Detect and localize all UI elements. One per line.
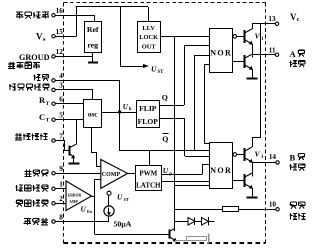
current source I1 50uA circle — [104, 206, 114, 216]
pin 6 terminal circle — [52, 102, 55, 105]
wire LLV stub into NOR2 input4 — [175, 185, 210, 187]
wire pin16 to Ref reg — [55, 16, 94, 22]
wire Uk down branch — [119, 112, 121, 151]
svg-text:NOR: NOR — [210, 166, 232, 175]
svg-text:Eo: Eo — [87, 209, 93, 214]
wire pin7 dead-time control — [54, 141, 68, 151]
wire error amp output stub — [92, 196, 95, 198]
wire current source to pin8 node — [108, 216, 110, 221]
label 补偿端 (compensation) — [25, 169, 27, 176]
ground bar under V2 — [68, 163, 79, 165]
svg-text:AMP: AMP — [69, 200, 78, 204]
ground bar output stage B — [247, 197, 258, 199]
wire Uk blanking line — [120, 150, 210, 152]
wire V1d collector to B node — [252, 163, 254, 177]
svg-text:FLOP: FLOP — [138, 117, 159, 126]
block OSC oscillator U3 — [84, 100, 102, 128]
wire diode stub end — [209, 221, 215, 223]
transistor V1c (B output upper) — [244, 148, 246, 161]
pin 14 terminal circle — [276, 161, 279, 164]
svg-text:P: P — [169, 171, 172, 176]
wire LLV rail riser down — [174, 36, 176, 231]
wire Qbar into NOR2 input1 — [185, 156, 210, 158]
wire V1a emitter to A output node — [252, 44, 254, 55]
IC boundary dashed border bottom — [64, 242, 266, 244]
wire NOR2 lower output to V1d base — [233, 180, 244, 182]
terminal circle above current source — [107, 191, 111, 195]
pin 1 terminal circle — [52, 187, 55, 190]
svg-text:FLIP: FLIP — [139, 104, 157, 113]
svg-text:k: k — [129, 107, 132, 112]
wire terminal to current source — [108, 195, 110, 206]
wire resistor to pin10 — [239, 209, 276, 211]
wire UP output upper — [161, 174, 202, 176]
wire UP riser — [202, 164, 204, 174]
svg-text:50µA: 50µA — [114, 219, 132, 228]
wire Qbar riser to NOR2 — [184, 119, 186, 156]
wire diode branch — [175, 221, 188, 223]
wire OSC output Uk — [102, 112, 136, 114]
svg-text:c: c — [297, 16, 300, 23]
label 基准电源 (reference supply) — [16, 11, 23, 13]
IC boundary dashed border left — [63, 3, 65, 245]
block PWM LATCH U7 — [136, 166, 162, 191]
wire Uk stub to PWM latch — [149, 151, 151, 165]
svg-text:2: 2 — [59, 195, 63, 203]
wire base from error amp node — [94, 234, 169, 236]
wire pin3 oscillator output — [55, 90, 92, 100]
current source arrow — [108, 208, 110, 214]
label 控制 (control) — [290, 213, 292, 219]
pin 3 terminal circle — [52, 88, 55, 91]
pin 16 terminal circle — [52, 14, 55, 17]
svg-text:Q: Q — [162, 93, 168, 102]
wire V2 emitter to ground — [73, 157, 75, 163]
wire pin4 external frequency input — [55, 81, 119, 112]
svg-text:3: 3 — [59, 82, 63, 90]
label 关断 (shutdown) — [290, 201, 296, 203]
label 同向输入 (non-inverting input) — [16, 199, 22, 201]
wire PWM latch lower output to NOR2 input3 — [161, 181, 209, 183]
NOR2 output bubble — [233, 153, 237, 157]
svg-text:14: 14 — [269, 153, 277, 161]
wire error amp output to comparator — [94, 179, 101, 181]
label 输入 (input) — [34, 74, 36, 80]
wire FF Q output — [160, 105, 185, 107]
svg-text:4: 4 — [59, 72, 63, 80]
pin 13 terminal circle — [275, 22, 278, 25]
wire error amp output riser — [94, 180, 96, 235]
wire V1b emitter to ground — [252, 69, 254, 78]
wire V1a collector to pin13 — [253, 24, 276, 29]
wire pin6 RT — [55, 103, 83, 105]
svg-text:V: V — [36, 32, 43, 42]
wire pin5 CT — [55, 119, 83, 121]
wire pin12 GROUD — [55, 56, 93, 58]
svg-text:ST: ST — [158, 70, 165, 75]
wire riser NOR1 input4 to NOR2 top entry — [204, 65, 206, 144]
wire pin9 compensation — [55, 173, 101, 175]
svg-text:7: 7 — [59, 132, 63, 140]
wire riser entry into NOR2 top-left — [204, 143, 210, 145]
svg-text:ST: ST — [124, 197, 130, 202]
wire rail branch to UST arrow — [121, 7, 144, 67]
wire Vc feed riser — [253, 24, 261, 146]
svg-text:15: 15 — [56, 28, 64, 36]
svg-text:T: T — [46, 101, 50, 107]
wire Uk riser to NOR1 — [194, 56, 196, 152]
svg-text:16: 16 — [56, 7, 64, 15]
diode VD2 — [202, 218, 209, 225]
pin 7 terminal circle — [52, 139, 55, 142]
wire Vs rail riser — [76, 7, 78, 37]
svg-text:U: U — [163, 166, 169, 175]
svg-text:ERROR: ERROR — [68, 194, 82, 198]
wire pin8 soft start — [55, 221, 109, 223]
IC boundary dashed border top — [64, 2, 266, 4]
svg-text:8: 8 — [59, 213, 63, 221]
transistor V1a (A output upper) — [244, 30, 246, 43]
label 反向输入 (inverting input) — [16, 185, 18, 191]
svg-text:U: U — [151, 65, 157, 74]
svg-text:V: V — [255, 32, 261, 41]
pin 15 terminal circle — [52, 35, 55, 38]
label 输出 A (output) — [290, 61, 292, 67]
svg-text:12: 12 — [56, 48, 64, 56]
pin 4 terminal circle — [52, 79, 55, 82]
wire V3 emitter (gray) — [175, 240, 186, 242]
wire between diodes — [195, 221, 202, 223]
op-amp comparator COMP U5 triangle — [101, 160, 128, 189]
op-amp error amplifier U4 triangle — [66, 181, 92, 211]
wire Q into NOR1 input2 — [184, 45, 210, 47]
svg-text:LATCH: LATCH — [136, 182, 161, 190]
wire Ref reg ground stub — [92, 53, 94, 63]
pin 12 terminal circle — [52, 55, 55, 58]
svg-text:1: 1 — [59, 181, 63, 189]
ground bar under Ref reg — [88, 62, 98, 64]
svg-text:13: 13 — [268, 15, 276, 23]
svg-text:Q: Q — [162, 135, 168, 144]
wire comparator output to PWM latch — [128, 173, 136, 175]
wire UP into NOR1 input4 — [204, 64, 210, 66]
svg-text:C: C — [39, 112, 45, 122]
label 外部频率 (external frequency) — [9, 62, 11, 69]
wire Vs top rail — [76, 6, 149, 8]
svg-text:reg: reg — [87, 41, 98, 50]
svg-text:LLV: LLV — [142, 25, 155, 32]
block LLV LOCK OUT (undervoltage lockout) U2 — [138, 22, 161, 53]
wire pin11 A output — [252, 54, 275, 56]
gate NOR2 box — [210, 143, 233, 189]
block FLIP FLOP U6 — [137, 101, 160, 128]
wire Uk into NOR1 input3 — [194, 55, 209, 57]
svg-text:T: T — [46, 117, 50, 123]
wire V1d emitter to ground — [252, 188, 254, 197]
transistor V3 shutdown base bar — [169, 229, 171, 238]
transistor V2 dead-time discharge base bar — [69, 146, 71, 156]
pin 8 terminal circle — [52, 220, 55, 223]
transistor V3 emitter with arrow — [169, 237, 175, 241]
arrowhead UST — [143, 64, 149, 68]
label 振荡器输出 (oscillator output) — [9, 84, 11, 90]
resistor R1 shutdown — [223, 207, 239, 212]
svg-text:10: 10 — [269, 201, 277, 209]
svg-text:B: B — [290, 152, 296, 162]
svg-text:OUT: OUT — [142, 44, 157, 51]
pin 5 terminal circle — [52, 118, 55, 121]
label 死区控制 (dead-time control) — [16, 133, 18, 140]
pin 2 terminal circle — [52, 202, 55, 205]
junction dot Uk node — [118, 110, 121, 113]
transistor V1b (A output lower) — [244, 55, 246, 68]
resistor R2 to ground (gray) — [187, 237, 207, 241]
wire pin14 B output — [252, 162, 276, 164]
transistor V2 emitter with arrow — [69, 153, 74, 157]
wire NOR1 lower output to V1b base — [233, 61, 244, 63]
wire shutdown to pin10 resistor — [175, 209, 222, 211]
svg-text:PWM: PWM — [139, 169, 157, 177]
wire rail drop to LLV lockout — [148, 7, 150, 22]
wire V1c collector — [252, 145, 254, 147]
svg-text:LOCK: LOCK — [139, 34, 158, 41]
svg-text:6: 6 — [59, 96, 63, 104]
wire V2 collector to CT node — [76, 120, 78, 144]
gate NOR1 box — [210, 29, 233, 73]
wire NOR1 bubble to V1a base — [237, 36, 244, 38]
wire pin15 Vs to rail riser — [55, 36, 76, 38]
svg-text:U: U — [117, 193, 123, 202]
wire UP branch into NOR2 input2 — [202, 164, 210, 166]
label 软启动 (soft start) — [24, 218, 31, 220]
pin 10 terminal circle — [276, 208, 279, 211]
svg-text:osc: osc — [88, 110, 98, 118]
transistor V2 collector — [69, 144, 77, 148]
pin 11 terminal circle — [275, 53, 278, 56]
wire FF Qbar output — [160, 118, 185, 120]
wire LLV output to NOR1 input1 — [160, 36, 210, 38]
svg-text:Ref: Ref — [87, 25, 99, 34]
wire Q riser to NOR1 — [184, 45, 186, 105]
NOR1 output bubble — [233, 35, 237, 39]
ground bar output stage A — [247, 78, 258, 80]
svg-text:U: U — [81, 204, 87, 213]
svg-text:V: V — [255, 150, 261, 159]
wire V1b collector to A node — [252, 55, 254, 58]
wire pin2 non-inverting input — [55, 203, 66, 205]
pin 9 terminal circle — [52, 172, 55, 175]
transistor V1d (B output lower) — [244, 174, 246, 187]
ground bar V3 emitter (gray) — [208, 234, 210, 244]
svg-text:5: 5 — [59, 112, 63, 120]
wire V1c emitter to B output node — [252, 161, 254, 164]
label 输出 B (output) — [290, 164, 292, 170]
wire OSC ramp to comparator — [92, 127, 101, 166]
svg-text:GROUD: GROUD — [19, 53, 50, 62]
svg-text:9: 9 — [59, 165, 63, 173]
svg-text:11: 11 — [269, 46, 276, 54]
wire pin1 inverting input — [55, 188, 66, 190]
wire NOR2 bubble to V1c base — [237, 154, 244, 156]
svg-text:COMP: COMP — [102, 172, 121, 178]
transistor V3 collector — [169, 228, 175, 231]
block Ref reg (reference regulator) U1 — [85, 22, 102, 53]
svg-text:A: A — [290, 49, 297, 59]
svg-text:NOR: NOR — [210, 49, 232, 58]
diode VD1 — [188, 218, 195, 225]
IC boundary dashed border right — [265, 3, 267, 245]
